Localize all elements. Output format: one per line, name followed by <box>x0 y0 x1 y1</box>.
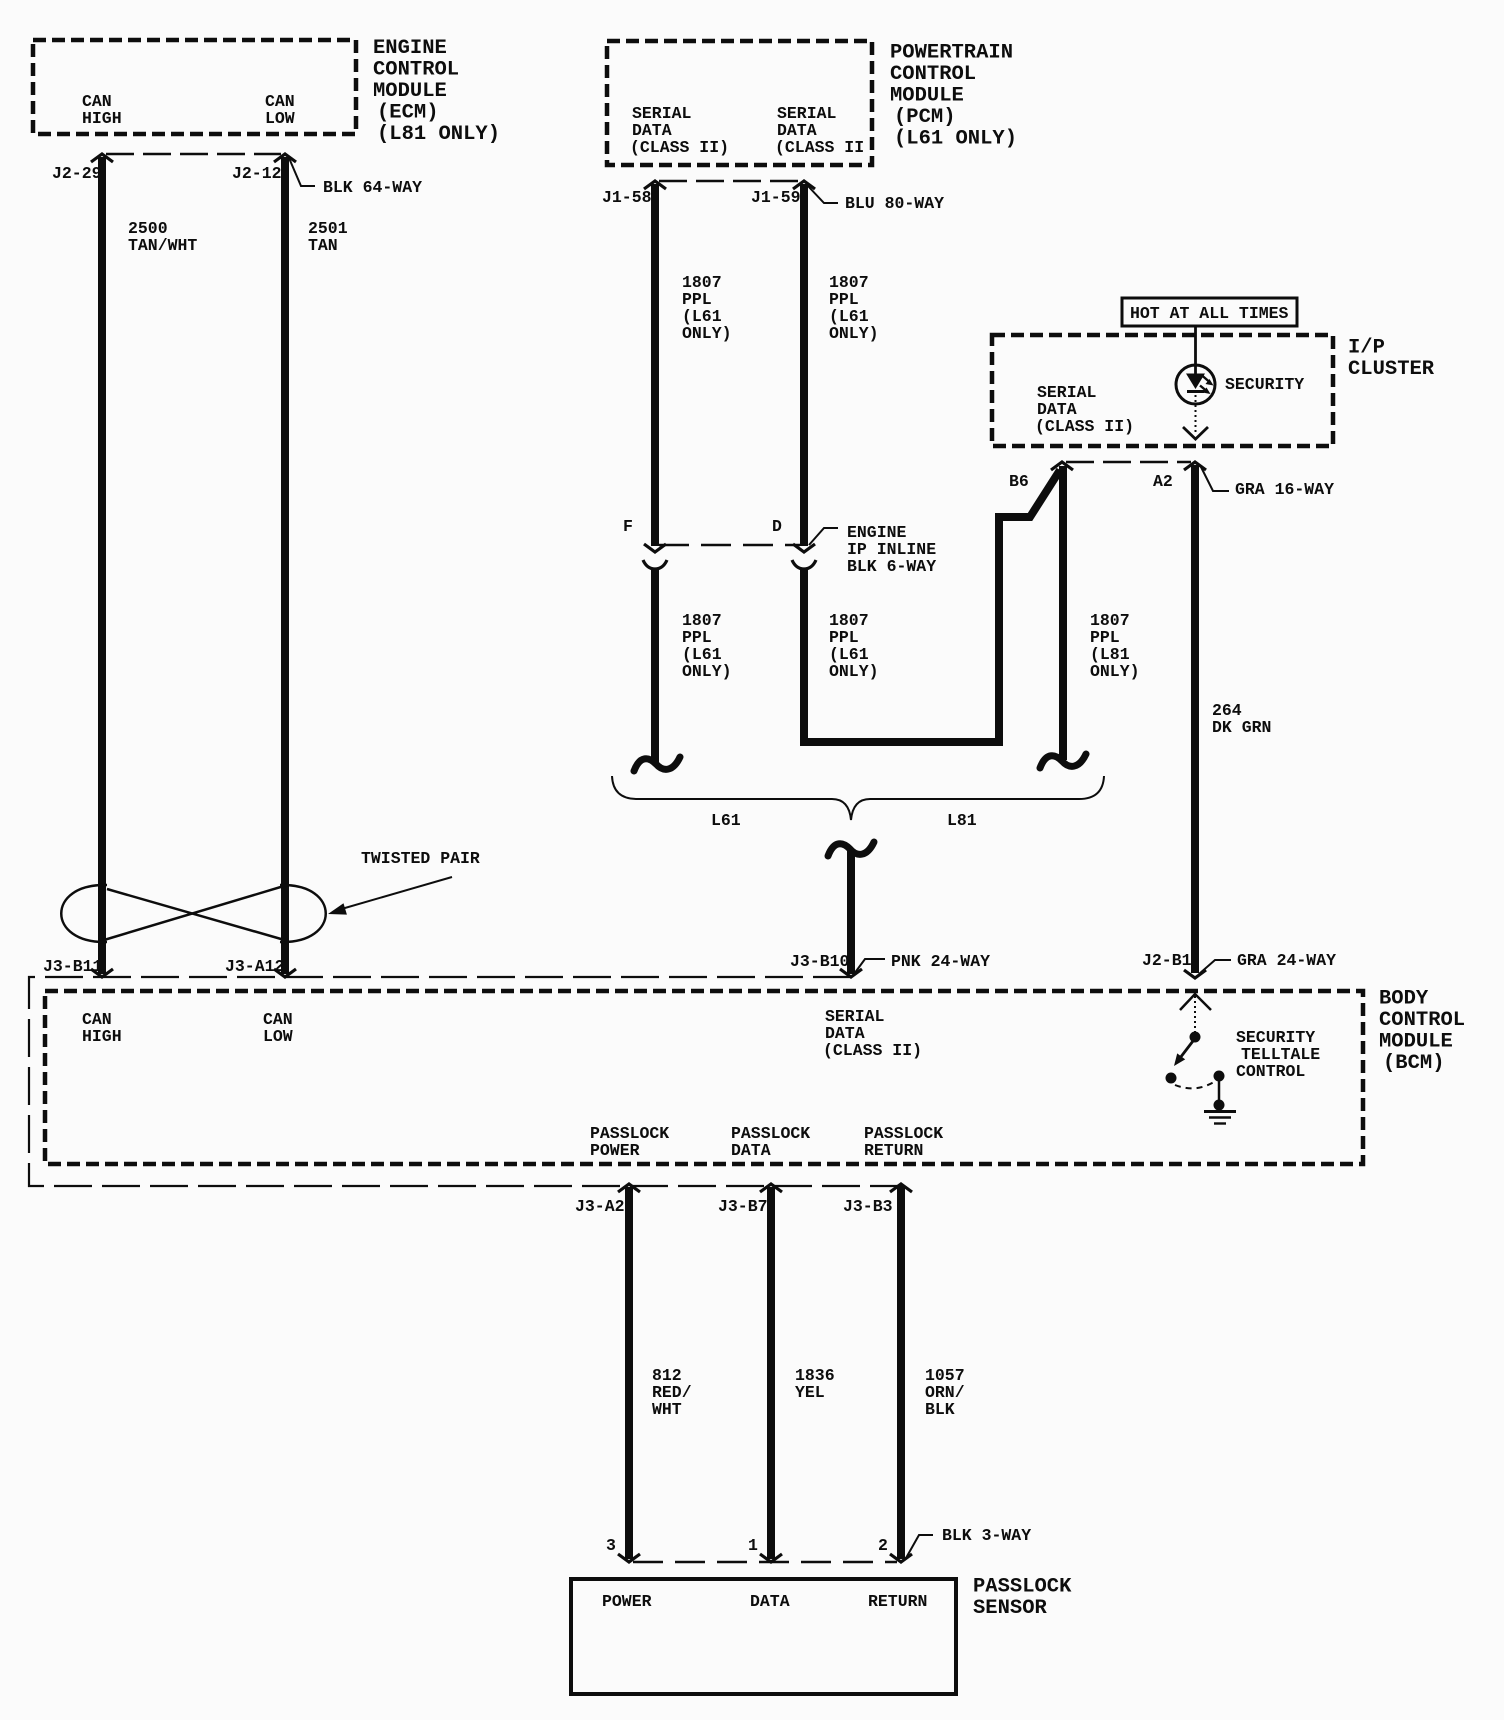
wire 1807 PPL L81 (B6 straight down to break) <box>1059 466 1067 760</box>
pointer ENGINE IP INLINE <box>809 528 838 545</box>
svg-text:GRA 24-WAY: GRA 24-WAY <box>1237 951 1336 970</box>
wire 1836 YEL (J3-B7 to pin 1) <box>767 1187 775 1559</box>
label wire 1057 ORN/BLK <box>925 1366 965 1419</box>
terminal arrow pin 1 <box>760 1554 782 1562</box>
svg-text:DATA: DATA <box>750 1592 790 1611</box>
terminal cup F (female) <box>643 560 667 569</box>
svg-text:2: 2 <box>878 1536 888 1555</box>
svg-text:TWISTED PAIR: TWISTED PAIR <box>361 849 480 868</box>
svg-text:J3-A2: J3-A2 <box>575 1197 625 1216</box>
label PASSLOCK SENSOR name <box>973 1576 1072 1621</box>
svg-text:BLK 3-WAY: BLK 3-WAY <box>942 1526 1031 1545</box>
svg-text:HIGH: HIGH <box>82 109 122 128</box>
svg-text:TAN: TAN <box>308 236 338 255</box>
wire 2500 TAN/WHT (CAN HIGH, J2-29 to J3-B11) <box>98 157 106 974</box>
svg-text:WHT: WHT <box>652 1400 682 1419</box>
terminal arrow J3-A2 <box>618 1184 640 1192</box>
svg-text:(PCM): (PCM) <box>894 106 956 129</box>
label SERIAL DATA right (PCM pin) <box>775 104 864 157</box>
switch pivot contact <box>1190 1032 1201 1043</box>
connector line at sensor (dashed) <box>633 1561 897 1564</box>
module box PCM (dashed) <box>607 41 872 165</box>
wire 1807 PPL J1-59 to D <box>800 184 808 546</box>
svg-text:DK GRN: DK GRN <box>1212 718 1271 737</box>
svg-text:YEL: YEL <box>795 1383 825 1402</box>
component box PASSLOCK SENSOR <box>571 1579 956 1694</box>
svg-text:MODULE: MODULE <box>1379 1031 1453 1054</box>
svg-text:J3-B3: J3-B3 <box>843 1197 893 1216</box>
svg-text:(CLASS II): (CLASS II) <box>1035 417 1134 436</box>
terminal arrow A2 <box>1184 462 1206 470</box>
svg-text:DATA: DATA <box>731 1141 771 1160</box>
svg-text:BLU 80-WAY: BLU 80-WAY <box>845 194 944 213</box>
lamp feed wire from HOT box <box>1194 326 1197 375</box>
svg-text:1: 1 <box>748 1536 758 1555</box>
svg-text:(BCM): (BCM) <box>1383 1052 1445 1075</box>
module box I/P CLUSTER (dashed) <box>992 335 1333 446</box>
svg-text:CLUSTER: CLUSTER <box>1348 358 1435 381</box>
svg-text:ONLY): ONLY) <box>829 324 879 343</box>
svg-text:GRA 16-WAY: GRA 16-WAY <box>1235 480 1334 499</box>
label wire 1807 PPL lower-middle <box>829 611 879 681</box>
svg-text:(CLASS II): (CLASS II) <box>630 138 729 157</box>
terminal arrow F (male, down) <box>644 544 666 552</box>
wire 2501 TAN (CAN LOW, J2-12 to J3-A12) <box>281 157 289 974</box>
wire 1807 PPL J1-58 to F <box>651 184 659 546</box>
svg-text:RETURN: RETURN <box>868 1592 927 1611</box>
terminal arrow J3-B10 <box>840 969 862 977</box>
svg-text:J2-29: J2-29 <box>52 164 102 183</box>
label CAN LOW (ECM pin) <box>265 92 295 128</box>
label CAN HIGH (ECM pin) <box>82 92 122 128</box>
power label box HOT AT ALL TIMES <box>1122 298 1297 326</box>
label TWISTED PAIR with arrow <box>328 849 480 915</box>
break symbol (S) lower-right <box>1040 754 1086 768</box>
label wire 1807 PPL upper-left <box>682 273 732 343</box>
svg-text:L81: L81 <box>947 811 977 830</box>
svg-text:D: D <box>772 517 782 536</box>
terminal arrow J2-12 <box>274 154 296 162</box>
terminal arrow J2-29 <box>91 154 113 162</box>
svg-text:POWER: POWER <box>590 1141 640 1160</box>
label SECURITY TELLTALE CONTROL <box>1236 1028 1320 1081</box>
terminal arrow B6 <box>1051 462 1073 470</box>
svg-text:(CLASS II): (CLASS II) <box>823 1041 922 1060</box>
label CAN LOW (BCM pin) <box>263 1010 293 1046</box>
svg-text:LOW: LOW <box>265 109 295 128</box>
wire 1057 ORN/BLK (J3-B3 to pin 2) <box>897 1187 905 1559</box>
wire 1807 PPL L61 lower-left (F down to break) <box>651 569 659 763</box>
terminal arrow J3-A12 <box>274 969 296 977</box>
label PCM name <box>890 42 1017 151</box>
label SERIAL DATA (BCM pin) <box>823 1007 922 1060</box>
break symbol (S) center <box>828 842 874 856</box>
svg-text:J3-B10: J3-B10 <box>790 952 849 971</box>
label wire 1807 PPL upper-right <box>829 273 879 343</box>
label ENGINE IP INLINE BLK 6-WAY <box>847 523 936 576</box>
svg-text:BLK 6-WAY: BLK 6-WAY <box>847 557 936 576</box>
svg-text:(CLASS II: (CLASS II <box>775 138 864 157</box>
wire 264 DK GRN (A2 to J2-B1) <box>1191 465 1199 973</box>
terminal arrow J1-59 <box>793 181 815 189</box>
svg-text:B6: B6 <box>1009 472 1029 491</box>
svg-text:ONLY): ONLY) <box>829 662 879 681</box>
ground symbol <box>1204 1112 1236 1124</box>
svg-text:J1-59: J1-59 <box>751 188 801 207</box>
svg-text:LOW: LOW <box>263 1027 293 1046</box>
svg-text:HOT AT ALL TIMES: HOT AT ALL TIMES <box>1130 304 1289 323</box>
module box BCM (dashed) <box>45 991 1363 1164</box>
twisted pair symbol <box>61 885 326 942</box>
break symbol (S) lower-left <box>634 757 680 771</box>
svg-text:CONTROL: CONTROL <box>1379 1009 1465 1032</box>
label wire 2501 TAN <box>308 219 348 255</box>
terminal arrow J3-B3 <box>890 1184 912 1192</box>
svg-text:POWER: POWER <box>602 1592 652 1611</box>
svg-text:J2-B1: J2-B1 <box>1142 951 1192 970</box>
svg-text:POWERTRAIN: POWERTRAIN <box>890 42 1013 65</box>
label SERIAL DATA left (PCM pin) <box>630 104 729 157</box>
switch security telltale (arrow into BCM) <box>1180 994 1211 1010</box>
svg-text:TAN/WHT: TAN/WHT <box>128 236 197 255</box>
terminal arrow J3-B11 <box>91 969 113 977</box>
pointer BLK 3-WAY <box>906 1535 933 1558</box>
switch contact right <box>1214 1071 1225 1082</box>
pointer PNK 24-WAY <box>854 959 885 974</box>
label I/P CLUSTER name <box>1348 337 1435 382</box>
label CAN HIGH (BCM pin) <box>82 1010 122 1046</box>
label wire 1836 YEL <box>795 1366 835 1402</box>
lamp output dotted wire with arrow <box>1183 390 1208 439</box>
label PASSLOCK POWER (BCM pin) <box>590 1124 669 1160</box>
pointer GRA 16-WAY <box>1201 467 1229 491</box>
svg-text:SENSOR: SENSOR <box>973 1597 1048 1620</box>
wire 1807 PPL L61 path D to B6 (corner run) <box>804 470 1060 742</box>
svg-text:J3-B7: J3-B7 <box>718 1197 768 1216</box>
svg-text:J3-A12: J3-A12 <box>225 957 284 976</box>
inline connector F/D dashed line <box>659 544 800 547</box>
svg-text:MODULE: MODULE <box>890 85 964 108</box>
svg-text:(ECM): (ECM) <box>377 102 439 125</box>
switch throw dashed arc <box>1175 1082 1214 1088</box>
connector line J1 at PCM (dashed) <box>659 180 800 183</box>
terminal arrow pin 2 <box>890 1554 912 1562</box>
switch arm with arrowhead <box>1174 1041 1193 1066</box>
svg-text:ONLY): ONLY) <box>1090 662 1140 681</box>
wire 812 RED/WHT (J3-A2 to pin 3) <box>625 1187 633 1559</box>
label wire 1807 PPL lower-left <box>682 611 732 681</box>
connector line at I/P cluster B6/A2 (dashed) <box>1066 461 1191 464</box>
label PASSLOCK DATA (BCM pin) <box>731 1124 810 1160</box>
svg-text:L61: L61 <box>711 811 741 830</box>
label RETURN (sensor pin) <box>868 1592 927 1611</box>
svg-text:ONLY): ONLY) <box>682 324 732 343</box>
svg-text:F: F <box>623 517 633 536</box>
svg-text:BLK: BLK <box>925 1400 955 1419</box>
lead to ground <box>1218 1081 1221 1101</box>
terminal arrow pin 3 <box>618 1554 640 1562</box>
pointer BLK 64-WAY <box>289 158 315 186</box>
svg-text:J2-12: J2-12 <box>232 164 282 183</box>
svg-text:J1-58: J1-58 <box>602 188 652 207</box>
svg-text:(L81 ONLY): (L81 ONLY) <box>377 123 500 146</box>
svg-text:A2: A2 <box>1153 472 1173 491</box>
label wire 1807 PPL L81 <box>1090 611 1140 681</box>
svg-text:CONTROL: CONTROL <box>373 59 459 82</box>
svg-text:HIGH: HIGH <box>82 1027 122 1046</box>
label DATA (sensor pin) <box>750 1592 790 1611</box>
connector line J2 at ECM (dashed) <box>106 153 281 156</box>
label PASSLOCK RETURN (BCM pin) <box>864 1124 943 1160</box>
label BCM name <box>1379 988 1465 1076</box>
terminal arrow D (male, down) <box>793 544 815 552</box>
ground node dot <box>1214 1100 1225 1111</box>
label wire 264 DK GRN <box>1212 701 1271 737</box>
connector line J3 (thin dashed around BCM) <box>29 977 903 1186</box>
label wire 2500 TAN/WHT <box>128 219 197 255</box>
svg-text:(L61 ONLY): (L61 ONLY) <box>894 128 1017 151</box>
terminal arrow J3-B7 <box>760 1184 782 1192</box>
svg-text:I/P: I/P <box>1348 337 1385 360</box>
switch contact left <box>1166 1073 1177 1084</box>
terminal arrow J1-58 <box>644 181 666 189</box>
terminal arrow J2-B1 <box>1184 970 1206 978</box>
svg-text:CONTROL: CONTROL <box>1236 1062 1305 1081</box>
svg-text:PNK 24-WAY: PNK 24-WAY <box>891 952 990 971</box>
pointer BLU 80-WAY <box>807 185 838 203</box>
svg-text:3: 3 <box>606 1536 616 1555</box>
svg-text:J3-B11: J3-B11 <box>43 957 103 976</box>
module box ECM (dashed) <box>33 40 356 134</box>
svg-text:BODY: BODY <box>1379 988 1429 1011</box>
label wire 812 RED/WHT <box>652 1366 692 1419</box>
label SERIAL DATA (I/P pin) <box>1035 383 1134 436</box>
svg-text:ENGINE: ENGINE <box>373 37 447 60</box>
brace grouping L61/L81 <box>612 776 1104 820</box>
switch dotted lead <box>1194 996 1196 1032</box>
label ECM name <box>373 37 500 146</box>
terminal cup D (female) <box>792 560 816 569</box>
svg-text:SECURITY: SECURITY <box>1225 375 1304 394</box>
svg-text:CONTROL: CONTROL <box>890 63 976 86</box>
wire serial data to J3-B10 <box>847 849 855 974</box>
label POWER (sensor pin) <box>602 1592 652 1611</box>
svg-text:MODULE: MODULE <box>373 80 447 103</box>
svg-text:PASSLOCK: PASSLOCK <box>973 1576 1072 1599</box>
svg-text:ONLY): ONLY) <box>682 662 732 681</box>
pointer GRA 24-WAY <box>1199 960 1231 974</box>
indicator lamp SECURITY <box>1176 365 1215 404</box>
svg-text:BLK 64-WAY: BLK 64-WAY <box>323 178 422 197</box>
svg-text:RETURN: RETURN <box>864 1141 923 1160</box>
